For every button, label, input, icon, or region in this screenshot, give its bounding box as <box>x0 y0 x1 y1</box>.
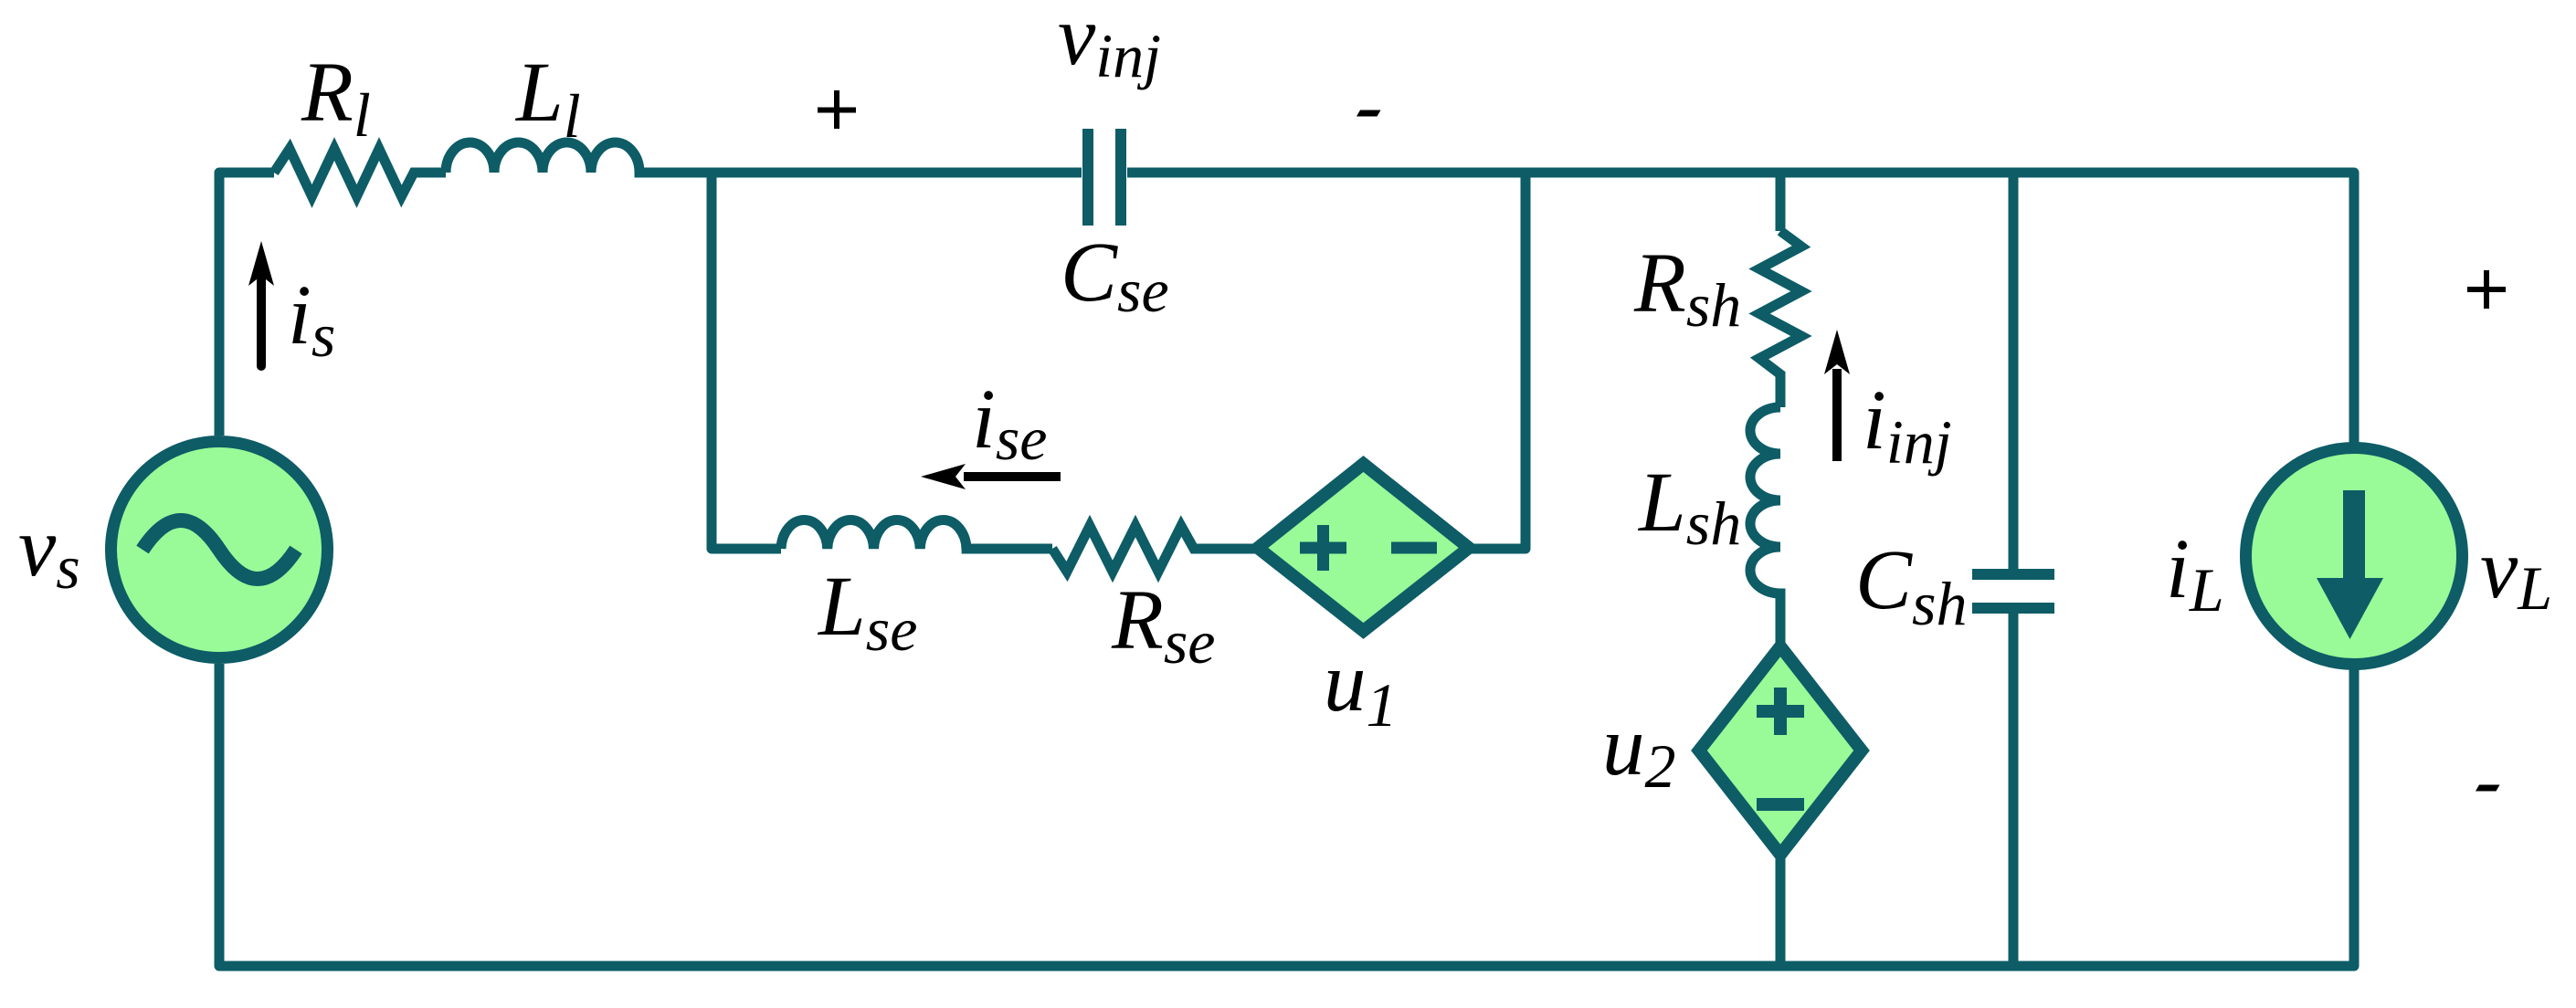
wire: series loop left vertical <box>712 168 781 550</box>
inductor L_se <box>781 520 1052 549</box>
u1 plus sign <box>1300 525 1346 571</box>
svg-text:vinj: vinj <box>1058 0 1161 90</box>
label plus of v_L <box>2467 270 2506 309</box>
svg-text:iinj: iinj <box>1863 373 1952 477</box>
wire: C_sh branch upper <box>2009 168 2019 570</box>
u2 plus sign <box>1757 688 1804 735</box>
svg-text:Rse: Rse <box>1111 573 1215 677</box>
dependent source u2 (diamond) <box>1699 646 1862 855</box>
u2 minus sign <box>1757 798 1804 811</box>
wire: left vertical and top-left segment to R_l <box>219 173 274 436</box>
voltage source v_s (circle) <box>111 442 328 658</box>
current arrow i_se <box>921 464 1061 489</box>
dependent source u1 (diamond) <box>1258 464 1469 631</box>
capacitor C_sh plates <box>1972 574 2054 608</box>
resistor R_l <box>274 149 446 196</box>
svg-text:Lsh: Lsh <box>1637 456 1741 558</box>
current arrow i_s <box>248 241 274 371</box>
svg-text:vL: vL <box>2480 522 2552 623</box>
wire: top right segment from C_se right plate to top-right corner <box>1127 173 2354 444</box>
svg-text:Rsh: Rsh <box>1633 236 1741 340</box>
capacitor C_se plates <box>1088 129 1121 226</box>
svg-text:ise: ise <box>972 373 1048 473</box>
wire: u1 to series loop right vertical <box>1464 168 1526 550</box>
inductor L_sh <box>1750 407 1780 650</box>
resistor R_sh <box>1759 231 1801 407</box>
current source i_L (circle) <box>2246 448 2463 665</box>
svg-text:iL: iL <box>2166 522 2224 625</box>
svg-text:Ll: Ll <box>514 46 581 151</box>
inductor L_l <box>446 142 1082 173</box>
svg-text:Cse: Cse <box>1061 226 1169 325</box>
wire: bottom rail <box>219 664 2354 966</box>
wire: u2 to bottom wire <box>1776 851 1786 966</box>
svg-text:Csh: Csh <box>1855 533 1968 638</box>
svg-text:u1: u1 <box>1324 635 1398 740</box>
svg-text:is: is <box>288 268 335 370</box>
label minus of v_inj <box>1357 110 1381 117</box>
wire: C_sh branch lower <box>2009 614 2019 966</box>
u1 minus sign <box>1391 542 1437 554</box>
i_L arrow inside source <box>2317 490 2383 639</box>
svg-text:vs: vs <box>18 500 80 602</box>
svg-text:u2: u2 <box>1602 699 1676 801</box>
resistor R_se <box>1052 526 1262 572</box>
svg-text:Lse: Lse <box>817 560 917 664</box>
wire: shunt branch top stub <box>1776 168 1786 232</box>
v_s sine wave <box>143 520 296 579</box>
current arrow i_inj <box>1824 330 1850 461</box>
label minus of v_L <box>2476 785 2500 792</box>
label plus of v_inj <box>818 90 856 129</box>
svg-text:Rl: Rl <box>301 46 371 150</box>
